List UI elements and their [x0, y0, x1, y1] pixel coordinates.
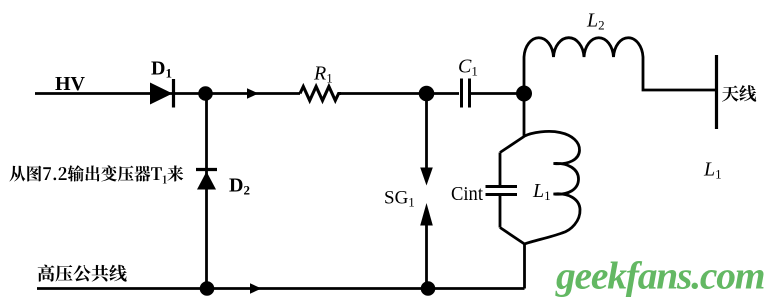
inductor L2 — [524, 38, 716, 94]
capacitor Cint — [486, 187, 518, 195]
wire direction arrow on bottom wire — [250, 283, 262, 293]
label 从图7.2输出变压器T1来 — [9, 165, 183, 183]
node junction dot top-left — [198, 86, 213, 101]
wire tank bottom to common line — [523, 244, 526, 289]
wire bottom common line — [37, 287, 525, 290]
node junction dot at C1/L2 — [516, 86, 532, 102]
svg-text:D1: D1 — [151, 58, 172, 81]
spark gap SG1 lower electrode — [420, 203, 433, 289]
label 高压公共线 — [38, 265, 127, 282]
svg-text:L1: L1 — [703, 159, 722, 182]
label 天线 (antenna) — [722, 85, 756, 102]
svg-text:L2: L2 — [586, 10, 605, 33]
svg-text:SG1: SG1 — [384, 188, 415, 210]
spark gap SG1 upper electrode — [420, 94, 433, 186]
svg-text:Cint: Cint — [451, 184, 484, 205]
node junction dot above SG1 — [419, 86, 435, 102]
antenna — [715, 55, 718, 129]
diode D2 — [196, 170, 217, 190]
svg-text:HV: HV — [55, 73, 86, 95]
wire: HV input top wire — [35, 92, 524, 95]
svg-text:L1: L1 — [532, 180, 551, 203]
capacitor C1 — [462, 79, 470, 108]
wire direction arrow on top wire — [247, 88, 259, 98]
resistor R1 — [300, 87, 341, 101]
svg-text:R1: R1 — [313, 63, 333, 86]
node junction dot below SG1 — [421, 281, 436, 296]
node junction dot bottom-left — [200, 281, 215, 296]
svg-text:D2: D2 — [229, 175, 250, 198]
tank circuit left side with Cint — [500, 137, 525, 245]
svg-text:C1: C1 — [458, 56, 478, 79]
wire riser from C1 node down to tank — [523, 94, 526, 138]
wire D2 branch vertical — [205, 94, 208, 289]
svg-text:geekfans.com: geekfans.com — [555, 254, 764, 298]
inductor L1 coil (tank right side) — [524, 131, 581, 244]
diode D1 — [150, 79, 174, 108]
